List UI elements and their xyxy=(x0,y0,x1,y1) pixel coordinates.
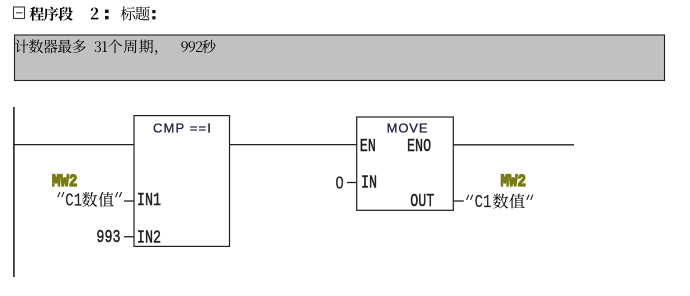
svg-text:MW2: MW2 xyxy=(501,171,527,191)
comparator box CMP ==I xyxy=(134,116,230,247)
operand symbol "C1数值" (left) xyxy=(58,190,122,211)
MOVE box xyxy=(357,117,454,210)
wire: CMP output to MOVE EN xyxy=(230,144,357,146)
collapse icon (minus box) xyxy=(14,7,25,19)
pin IN1 label xyxy=(137,189,161,211)
svg-text:0: 0 xyxy=(336,173,344,193)
wire: rail to CMP box EN path xyxy=(13,144,134,146)
svg-text:OUT: OUT xyxy=(410,190,434,212)
svg-text:ENO: ENO xyxy=(407,135,431,157)
pin IN2 label xyxy=(137,226,161,248)
svg-text:MW2: MW2 xyxy=(52,171,78,191)
wire stub OUT to operand xyxy=(453,200,464,202)
svg-text:C1: C1 xyxy=(475,191,492,212)
pin EN label xyxy=(360,135,376,157)
wire from ENO output xyxy=(453,144,574,146)
pin IN label xyxy=(361,171,377,193)
wire stub to IN1 xyxy=(124,200,134,202)
pin OUT label xyxy=(410,190,434,212)
svg-text:MOVE: MOVE xyxy=(387,121,429,136)
svg-text:IN2: IN2 xyxy=(137,226,161,248)
pin ENO label xyxy=(407,135,431,157)
operand address MW2 (right) xyxy=(501,171,527,191)
wire stub 0 to IN xyxy=(347,182,357,184)
svg-text:993: 993 xyxy=(96,226,120,248)
operand symbol "C1数值" (right) xyxy=(467,191,533,212)
svg-text:IN: IN xyxy=(361,171,377,193)
wire stub to IN2 xyxy=(124,236,134,238)
network comment box xyxy=(15,35,665,81)
svg-text:IN1: IN1 xyxy=(137,189,161,211)
comment text 计数器最多31个周期，992秒 xyxy=(15,39,216,55)
constant value 993 at IN2 xyxy=(96,226,120,248)
svg-text:C1: C1 xyxy=(65,190,82,211)
svg-text:EN: EN xyxy=(360,135,376,157)
network header text 程序段 2：标题： xyxy=(30,6,156,20)
svg-text:CMP ==I: CMP ==I xyxy=(153,120,212,135)
left power rail xyxy=(13,107,15,277)
constant value 0 at IN xyxy=(336,173,344,193)
operand address MW2 (left) xyxy=(52,171,78,191)
